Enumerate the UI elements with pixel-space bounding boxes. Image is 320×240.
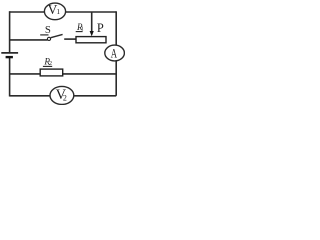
svg-text:A: A xyxy=(111,46,118,61)
svg-text:P: P xyxy=(97,21,104,35)
svg-text:2: 2 xyxy=(63,94,67,103)
svg-text:1: 1 xyxy=(56,7,60,16)
svg-text:S: S xyxy=(45,24,51,36)
